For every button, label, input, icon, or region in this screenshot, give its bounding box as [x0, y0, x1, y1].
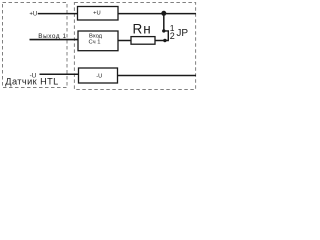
terminal box +U	[78, 7, 119, 21]
svg-text:+U: +U	[29, 11, 37, 17]
jumper pin 1	[162, 29, 165, 32]
svg-text:Выход 1: Выход 1	[38, 33, 66, 40]
svg-text:Rн: Rн	[133, 22, 152, 37]
jumper pin 2	[163, 39, 166, 42]
wire Вход box to resistor	[118, 40, 131, 42]
svg-text:Датчик HTL: Датчик HTL	[5, 76, 58, 86]
svg-text:-U: -U	[96, 74, 102, 80]
terminal box -U	[79, 68, 118, 83]
wire Выход 1 to Вход Сч 1 terminal	[30, 39, 79, 41]
svg-text:2: 2	[170, 31, 175, 41]
wire top rail +U to right border	[118, 13, 196, 15]
jumper link pin1 to pin2	[164, 31, 169, 41]
junction node on +U rail	[161, 11, 166, 16]
wire +U sensor to +U terminal	[38, 13, 78, 15]
svg-text:JP: JP	[176, 28, 188, 39]
wire -U sensor to -U terminal	[40, 73, 79, 75]
counter device dashed enclosure	[74, 3, 195, 90]
resistor Rн	[131, 37, 155, 45]
wire -U box to right border	[118, 75, 197, 77]
wire drop from junction to jumper pin 1	[163, 13, 165, 31]
sensor dashed enclosure (Датчик HTL)	[3, 3, 68, 88]
svg-text:+U: +U	[93, 11, 101, 17]
wire resistor to jumper pin 2	[155, 40, 169, 42]
terminal box Вход Сч 1	[78, 31, 118, 51]
svg-text:Сч 1: Сч 1	[89, 39, 101, 45]
